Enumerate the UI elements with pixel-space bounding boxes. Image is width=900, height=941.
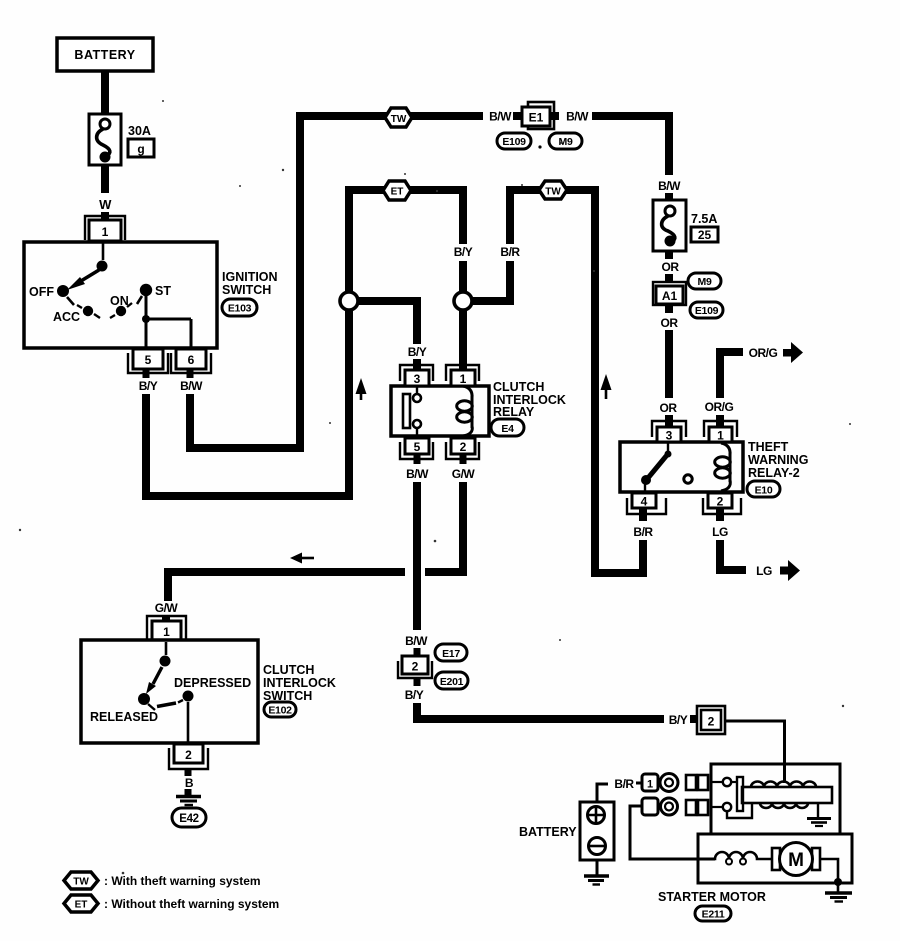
- svg-text:W: W: [99, 197, 112, 212]
- svg-text:3: 3: [666, 429, 673, 443]
- pin 5 (ignition): [128, 349, 168, 373]
- wire B/Y: ignition pin5 down, right, up to circle: [146, 311, 349, 496]
- wire fuse to W: [101, 165, 109, 193]
- svg-text:B: B: [185, 776, 194, 790]
- svg-text:CLUTCH: CLUTCH: [263, 663, 314, 677]
- label THEFT WARNING RELAY-2: [748, 440, 808, 480]
- ring terminal (top): [660, 774, 678, 792]
- starter motor box: [698, 834, 852, 883]
- wire circle left to relay pin3: [358, 301, 417, 344]
- oval E109 (top): [497, 133, 531, 149]
- wire circle down to relay pin1: [459, 310, 467, 371]
- theft relay coil (internal): [715, 443, 731, 491]
- svg-text:DEPRESSED: DEPRESSED: [174, 676, 251, 690]
- ignition switch internals: [29, 243, 191, 347]
- relay pin 3: [400, 365, 433, 386]
- svg-text:5: 5: [414, 440, 421, 454]
- connector 2 (starter): [697, 706, 725, 734]
- wire from bottom box to starter motor: [630, 806, 715, 859]
- svg-text:B/Y: B/Y: [669, 713, 688, 727]
- svg-text:G/W: G/W: [155, 601, 179, 615]
- oval E109 (right): [690, 302, 723, 318]
- legend hexagon TW: [64, 872, 98, 889]
- svg-text:2: 2: [708, 715, 715, 729]
- relay pin 1: [446, 365, 479, 386]
- stub E1 left: [513, 112, 522, 120]
- svg-text:1: 1: [647, 779, 653, 791]
- ring terminal (bottom): [661, 798, 678, 815]
- svg-text:M9: M9: [698, 276, 712, 288]
- svg-text:OFF: OFF: [29, 285, 54, 299]
- svg-text:RELEASED: RELEASED: [90, 710, 158, 724]
- stub below pin5: [414, 454, 421, 464]
- svg-text:G/W: G/W: [452, 467, 476, 481]
- wire down to theft relay: [665, 330, 673, 398]
- svg-text:E109: E109: [502, 136, 526, 148]
- theft pin 1: [704, 421, 737, 443]
- clutch interlock switch box: [81, 640, 258, 743]
- arrow right (OR/G): [783, 342, 803, 363]
- stub E1 right: [550, 112, 559, 120]
- svg-text:B/R: B/R: [633, 525, 653, 539]
- stub below pin2: [185, 769, 192, 776]
- svg-text:OR: OR: [660, 401, 678, 415]
- legend hexagon ET: [64, 895, 98, 912]
- motor brushes and M: [772, 843, 820, 876]
- comma dot: [538, 145, 541, 148]
- svg-text:2: 2: [460, 440, 467, 454]
- clutch interlock relay box: [391, 386, 489, 436]
- motor field coil: [698, 852, 773, 859]
- svg-text:WARNING: WARNING: [748, 453, 808, 467]
- connector 1 (solenoid): [642, 774, 658, 791]
- svg-text:7.5A: 7.5A: [691, 212, 717, 226]
- theft warning relay-2 box: [620, 442, 743, 492]
- svg-text:2: 2: [412, 660, 419, 674]
- theft pin 2: [703, 493, 741, 514]
- oval E211: [695, 906, 731, 921]
- stub to switch pin1: [162, 615, 170, 622]
- oval E10: [747, 481, 780, 497]
- up arrow (right wire): [601, 374, 612, 399]
- wire LG down and right: [720, 540, 746, 570]
- svg-text:2: 2: [185, 748, 192, 762]
- svg-text:B/W: B/W: [180, 379, 203, 393]
- wire B/Y down and right: [417, 703, 664, 719]
- theft pin 4: [627, 493, 666, 514]
- svg-text:1: 1: [717, 429, 724, 443]
- stub below A1: [665, 305, 673, 313]
- svg-text:E102: E102: [268, 705, 292, 717]
- stub to theft pin1: [716, 415, 724, 428]
- stub pin6: [187, 369, 194, 378]
- oval E201: [435, 672, 468, 689]
- stub: [636, 782, 642, 785]
- solenoid terminals: [711, 778, 731, 811]
- oval M9 (top): [549, 133, 582, 149]
- switch pin 2: [169, 744, 208, 769]
- relay pin 5: [400, 438, 433, 459]
- svg-text:E42: E42: [179, 813, 199, 825]
- top wire from pin6: down right up across to B/W: [190, 116, 483, 448]
- oval E42: [172, 808, 206, 827]
- svg-text:g: g: [137, 142, 144, 156]
- svg-text:E211: E211: [702, 909, 725, 921]
- svg-text:B/W: B/W: [489, 110, 512, 124]
- svg-text:TW: TW: [73, 877, 89, 888]
- svg-text:E10: E10: [755, 485, 773, 497]
- connector box (bottom row): [642, 798, 658, 815]
- pin 6 (ignition): [171, 349, 211, 373]
- stub to theft pin3: [665, 415, 673, 428]
- wire W to connector 1: [101, 212, 109, 220]
- solenoid internal ground: [807, 803, 831, 826]
- svg-text:STARTER MOTOR: STARTER MOTOR: [658, 890, 766, 904]
- connector 1 (ignition switch): [85, 216, 125, 241]
- stub to relay pin3: [413, 359, 421, 371]
- ground stub: [185, 789, 192, 795]
- fuse 7.5A: [653, 200, 718, 251]
- stub pin5: [143, 369, 150, 378]
- relay switch (internal): [403, 386, 421, 436]
- svg-text:25: 25: [698, 228, 712, 242]
- solenoid plunger: [727, 777, 752, 818]
- battery ground wire: [596, 860, 599, 875]
- svg-text:B/W: B/W: [658, 179, 681, 193]
- svg-text:ST: ST: [155, 284, 171, 298]
- connector oval E103: [222, 299, 257, 316]
- wire TW branch up and across, down right side to theft relay pin4: [510, 190, 643, 573]
- fuse 30A: [89, 114, 154, 165]
- motor right lead to ground: [820, 859, 852, 902]
- solenoid coil: [742, 782, 832, 809]
- label IGNITION SWITCH: [222, 270, 278, 297]
- hexagon TW (top): [385, 108, 412, 127]
- svg-text:SWITCH: SWITCH: [222, 283, 271, 297]
- svg-text:6: 6: [188, 353, 195, 367]
- svg-text:OR: OR: [661, 316, 679, 330]
- svg-text:B/R: B/R: [500, 245, 520, 259]
- connector 2 (E17/E201): [398, 656, 432, 678]
- svg-text:ACC: ACC: [53, 310, 80, 324]
- svg-text:RELAY-2: RELAY-2: [748, 466, 800, 480]
- stub: [414, 648, 421, 656]
- connector pair (upper, solenoid): [686, 775, 708, 790]
- svg-text:THEFT: THEFT: [748, 440, 789, 454]
- wire TW branch: circle right, up: [472, 261, 510, 301]
- svg-text:A1: A1: [662, 289, 678, 303]
- svg-text:E1: E1: [529, 111, 544, 125]
- stub below pin2: [460, 454, 467, 464]
- svg-text:B/Y: B/Y: [408, 345, 427, 359]
- oval M9 (right): [688, 273, 721, 289]
- ground E42: [176, 797, 201, 806]
- svg-text:ON: ON: [110, 294, 129, 308]
- left arrow on horizontal wire: [290, 553, 314, 564]
- top wire E1 to right column: [592, 116, 669, 175]
- svg-text:ET: ET: [75, 900, 88, 911]
- ground (battery): [584, 876, 609, 885]
- connector circle (right): [454, 292, 472, 310]
- svg-text:1: 1: [163, 625, 170, 639]
- svg-text:TW: TW: [545, 187, 561, 198]
- stub to fuse: [665, 193, 673, 201]
- svg-text:1: 1: [102, 225, 109, 239]
- svg-text:B/R: B/R: [614, 777, 634, 791]
- svg-text:OR/G: OR/G: [749, 346, 778, 360]
- stub to A1: [665, 274, 673, 283]
- wire to right circle: [459, 261, 467, 292]
- svg-text:2: 2: [717, 495, 724, 509]
- svg-text:E17: E17: [442, 648, 460, 660]
- svg-text:M9: M9: [559, 136, 573, 148]
- connector circle (left): [340, 292, 358, 310]
- svg-text:M: M: [788, 850, 804, 871]
- theft pin 3: [652, 421, 686, 443]
- svg-text:B/W: B/W: [406, 467, 429, 481]
- battery (top): [57, 38, 153, 71]
- svg-text:1: 1: [460, 372, 467, 386]
- scan specks: [19, 100, 851, 874]
- wire circle up to ET line, right to x463: [349, 190, 463, 292]
- svg-text:E4: E4: [501, 423, 514, 435]
- svg-text:: With theft warning system: : With theft warning system: [104, 874, 261, 888]
- starter solenoid box: [711, 764, 840, 834]
- battery (bottom): [519, 802, 614, 860]
- hexagon ET: [383, 181, 411, 200]
- OR/G branch wire up and right: [720, 352, 743, 398]
- stub below fuse: [665, 251, 673, 259]
- svg-text:: Without theft warning system: : Without theft warning system: [104, 897, 279, 911]
- svg-text:E201: E201: [440, 676, 464, 688]
- stub below pin2: [716, 508, 724, 521]
- svg-text:E109: E109: [695, 305, 719, 317]
- B/W wire from relay pin5 down: [413, 482, 421, 630]
- svg-text:B/W: B/W: [405, 634, 428, 648]
- svg-text:B/W: B/W: [566, 110, 589, 124]
- svg-text:CLUTCH: CLUTCH: [493, 380, 544, 394]
- stub below pin4: [639, 508, 647, 521]
- arrow right (LG): [780, 560, 800, 581]
- svg-text:BATTERY: BATTERY: [74, 48, 135, 62]
- svg-text:ET: ET: [391, 187, 404, 198]
- svg-text:E103: E103: [228, 303, 252, 315]
- svg-text:B/Y: B/Y: [405, 688, 424, 702]
- svg-text:B/Y: B/Y: [139, 379, 158, 393]
- switch pin 1: [147, 616, 186, 640]
- wire battery+ up to B/R: [597, 784, 608, 803]
- switch internals: [90, 642, 251, 743]
- relay pin 2: [446, 438, 479, 459]
- svg-text:IGNITION: IGNITION: [222, 270, 278, 284]
- small contact circle (internal): [684, 475, 692, 483]
- svg-text:OR/G: OR/G: [705, 400, 734, 414]
- svg-text:BATTERY: BATTERY: [519, 825, 577, 839]
- stub: [690, 715, 697, 723]
- theft relay switch (internal): [641, 443, 672, 492]
- horizontal wire to clutch switch: [168, 572, 405, 601]
- svg-text:4: 4: [641, 495, 648, 509]
- oval E17: [435, 644, 467, 661]
- G/W wire from relay pin2 down to horizontal: [425, 482, 463, 572]
- svg-text:B/Y: B/Y: [454, 245, 473, 259]
- svg-text:3: 3: [414, 372, 421, 386]
- label CLUTCH INTERLOCK SWITCH: [263, 663, 336, 703]
- hexagon TW (middle): [539, 181, 567, 199]
- oval E102: [264, 702, 296, 717]
- svg-text:TW: TW: [391, 114, 407, 125]
- relay coil (internal): [457, 386, 473, 436]
- connector pair (lower, solenoid): [686, 800, 708, 815]
- svg-text:5: 5: [145, 353, 152, 367]
- thin wire to solenoid: [725, 721, 785, 783]
- oval E4: [491, 419, 524, 436]
- ignition switch box: [24, 242, 217, 348]
- up arrow (left wire): [356, 378, 367, 400]
- svg-text:LG: LG: [712, 525, 728, 539]
- svg-text:30A: 30A: [128, 124, 151, 138]
- svg-text:RELAY: RELAY: [493, 405, 535, 419]
- svg-text:LG: LG: [756, 564, 772, 578]
- stub below connector: [414, 678, 421, 686]
- wire battery to fuse: [101, 71, 109, 115]
- connector A1: [653, 282, 686, 305]
- connector E1: [522, 102, 554, 129]
- svg-text:OR: OR: [662, 260, 680, 274]
- label CLUTCH INTERLOCK RELAY: [493, 380, 566, 419]
- svg-text:INTERLOCK: INTERLOCK: [263, 676, 336, 690]
